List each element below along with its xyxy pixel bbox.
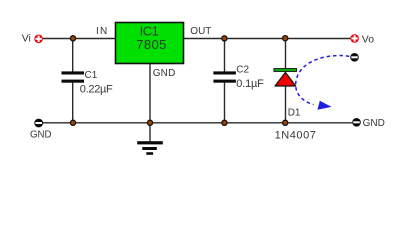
diode D1 cathode bar: [274, 69, 297, 72]
wire D1 lower: [285, 86, 287, 123]
wire C2 upper: [224, 39, 226, 72]
current path arrow (blue dashed): [296, 56, 350, 105]
op IC1 7805 regulator body: [116, 23, 184, 64]
svg-text:C2: C2: [236, 65, 249, 76]
node junction dot G (D1 bottom): [283, 120, 288, 125]
wire D1 upper: [285, 39, 287, 70]
node junction dot F (C2 bottom): [222, 120, 227, 125]
svg-text:GND: GND: [363, 118, 385, 129]
wire C1 upper: [72, 39, 74, 72]
wire ground stub: [149, 123, 151, 141]
svg-text:7805: 7805: [136, 37, 167, 52]
wire C1 lower: [72, 83, 74, 123]
capacitor C1: [62, 71, 85, 82]
svg-text:GND: GND: [153, 68, 176, 79]
svg-text:C1: C1: [85, 70, 98, 81]
node junction dot E (IC gnd bottom): [147, 120, 152, 125]
svg-text:0.1µF: 0.1µF: [236, 78, 264, 90]
svg-text:0.22µF: 0.22µF: [80, 84, 113, 96]
terminal Vo plus: [350, 34, 359, 43]
capacitor C2: [213, 71, 236, 82]
svg-text:IN: IN: [96, 26, 108, 37]
diode D1 anode triangle: [275, 72, 296, 86]
node junction dot D (C1 bottom): [70, 120, 75, 125]
node junction dot B (C2 top): [222, 36, 227, 41]
wire top rail right: IC OUT to Vo: [184, 38, 351, 40]
terminal GND left minus: [34, 119, 43, 128]
svg-text:GND: GND: [30, 129, 52, 140]
node junction dot A (input): [70, 36, 75, 41]
svg-text:D1: D1: [288, 108, 301, 119]
terminal minus (below Vo): [350, 53, 359, 62]
node junction dot C (D1 top): [283, 36, 288, 41]
arrowhead of blue arrow: [317, 101, 331, 110]
terminal Vi plus: [34, 35, 43, 44]
svg-text:Vi: Vi: [22, 33, 31, 45]
svg-text:1N4007: 1N4007: [275, 129, 317, 141]
wire top rail left: Vi to IC IN: [43, 38, 116, 40]
ground symbol: [137, 141, 163, 155]
wire IC GND pin: [149, 64, 151, 123]
wire bottom rail: [43, 122, 352, 124]
svg-text:Vo: Vo: [362, 34, 374, 46]
terminal GND right minus: [352, 118, 361, 127]
wire C2 lower: [224, 83, 226, 123]
svg-text:OUT: OUT: [190, 26, 211, 37]
